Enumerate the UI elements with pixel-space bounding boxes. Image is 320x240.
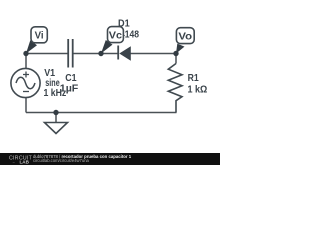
wire: bottom ground net bbox=[26, 112, 177, 114]
svg-text:R1: R1 bbox=[188, 73, 199, 84]
wire: node Vo down to resistor top lead bbox=[175, 54, 177, 64]
flag Vo bbox=[176, 28, 194, 44]
svg-text:1µF: 1µF bbox=[60, 84, 79, 95]
node dot Vo bbox=[173, 51, 178, 56]
wire: node Vi to capacitor left plate bbox=[26, 53, 68, 55]
svg-text:LAB: LAB bbox=[20, 160, 30, 165]
watermark bar bbox=[0, 153, 220, 165]
ground bbox=[45, 113, 68, 134]
svg-text:circuitlab.com/circuit/e4w7una: circuitlab.com/circuit/e4w7una bbox=[33, 158, 90, 163]
flag pointer Vi bbox=[26, 40, 37, 53]
flag pointer Vo bbox=[176, 44, 185, 54]
node dot Vc bbox=[98, 51, 103, 56]
flag pointer Vc bbox=[101, 40, 113, 54]
svg-text:Vo: Vo bbox=[178, 32, 192, 43]
wire: diode anode to node Vo bbox=[131, 53, 177, 55]
wire: node Vi down to V1 top terminal bbox=[25, 54, 27, 69]
svg-text:Vc: Vc bbox=[109, 30, 123, 41]
svg-text:V1: V1 bbox=[44, 68, 55, 79]
flag Vi bbox=[31, 27, 47, 43]
svg-text:C1: C1 bbox=[65, 73, 77, 84]
node dot Vi bbox=[23, 51, 28, 56]
flag Vc bbox=[108, 27, 124, 43]
wire: V1 bottom terminal down to ground net bbox=[25, 98, 27, 113]
junction dot ground net bbox=[53, 110, 58, 115]
voltage source V1 (sine) bbox=[11, 68, 40, 97]
svg-text:1 kΩ: 1 kΩ bbox=[188, 84, 208, 95]
wire: capacitor right plate through node Vc to diode cathode bbox=[73, 53, 119, 55]
diode D1 bbox=[118, 46, 131, 61]
svg-text:Vi: Vi bbox=[35, 31, 44, 42]
capacitor C1 bbox=[68, 39, 73, 68]
resistor R1 bbox=[168, 64, 182, 113]
